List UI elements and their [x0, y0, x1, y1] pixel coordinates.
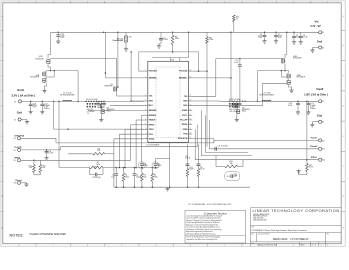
svg-text:E12: E12 [322, 149, 325, 151]
customer notice box [185, 210, 246, 243]
svg-text:3: 3 [190, 1, 191, 3]
svg-text:Si7540DP: Si7540DP [293, 58, 302, 60]
svg-text:4: 4 [156, 1, 157, 3]
ground rail bottom [114, 186, 250, 188]
svg-text:100k: 100k [175, 38, 179, 40]
svg-text:2.7V - 9V: 2.7V - 9V [310, 25, 321, 28]
wire ith1 staircase [119, 133, 144, 135]
svg-text:PLLIN: PLLIN [311, 138, 317, 140]
node SW2 [284, 70, 286, 72]
wire pgood2 net [210, 148, 319, 150]
svg-text:SENSE1-: SENSE1- [149, 110, 157, 112]
sense RC network ch1 [85, 101, 87, 103]
svg-text:5: 5 [121, 245, 122, 247]
inductor L1 [63, 100, 72, 101]
sense cluster pads ch2 [229, 103, 230, 105]
svg-text:Gnd: Gnd [17, 111, 23, 115]
ground left terminal [21, 119, 27, 121]
resistor R8 pullup [206, 37, 209, 44]
svg-text:3: 3 [190, 245, 191, 247]
svg-text:10k: 10k [42, 167, 45, 169]
svg-text:220pF: 220pF [136, 176, 141, 178]
capacitor C11 circled [138, 162, 145, 169]
svg-text:SYNC/FCB: SYNC/FCB [178, 138, 188, 140]
capacitor C19 output [30, 101, 32, 103]
svg-text:BG2: BG2 [184, 105, 188, 107]
capacitor C4 [300, 32, 302, 36]
sense cluster pads ch1 [87, 103, 88, 105]
wire pgood join over IC [139, 51, 199, 53]
resistor R10 [216, 166, 225, 168]
wire gnd-term [313, 47, 319, 49]
resistor R6 track net [68, 153, 93, 155]
ground Q6 [100, 114, 102, 118]
svg-text:330pF: 330pF [143, 165, 147, 167]
transistor Q6 sense [101, 109, 104, 114]
svg-text:47pF: 47pF [234, 175, 238, 177]
svg-text:2.5V ( 5A at 5Vin ): 2.5V ( 5A at 5Vin ) [11, 93, 35, 97]
svg-text:35.7k: 35.7k [200, 169, 204, 171]
svg-text:JP1: JP1 [129, 37, 132, 39]
capacitor C12 option box [225, 172, 240, 181]
svg-text:0.001uF: 0.001uF [221, 145, 229, 147]
svg-text:255k: 255k [154, 176, 158, 178]
svg-text:330pF: 330pF [157, 165, 161, 167]
transistor Q1A bottom fet [47, 70, 51, 73]
capacitor C15 output [42, 101, 44, 103]
svg-text:Vin: Vin [315, 19, 319, 23]
svg-text:U1 LTC3736EUF: U1 LTC3736EUF [147, 145, 160, 147]
U1 right pin stubs and labels [188, 70, 192, 72]
U1 top pin stubs [170, 58, 179, 62]
svg-text:E9: E9 [14, 160, 16, 162]
svg-text:1: 1 [259, 1, 260, 3]
wire Vout2 line [220, 100, 319, 102]
svg-text:IPRG1: IPRG1 [149, 124, 155, 126]
wire iprg2 net [195, 159, 318, 161]
capacitor C8 plllpf [46, 149, 48, 151]
svg-text:C18 1000pF: C18 1000pF [229, 111, 238, 113]
svg-text:1uF: 1uF [111, 176, 114, 178]
svg-text:E5: E5 [322, 32, 324, 34]
transistor Q4C parallel fet [287, 80, 290, 85]
resistor R9 pgood pullup [172, 32, 174, 35]
svg-text:SENSE2+: SENSE2+ [179, 78, 188, 80]
node SW1 [50, 70, 52, 72]
svg-text:C9: C9 [218, 145, 220, 147]
svg-text:C11: C11 [143, 163, 146, 165]
svg-text:10k: 10k [29, 167, 32, 169]
svg-text:10: 10 [236, 18, 238, 20]
svg-text:FMMT619: FMMT619 [105, 86, 113, 88]
svg-text:8: 8 [18, 1, 19, 3]
svg-text:RUN/SS: RUN/SS [149, 115, 157, 117]
svg-text:SW2: SW2 [183, 101, 187, 103]
svg-text:100k: 100k [209, 39, 213, 41]
svg-text:E4: E4 [14, 150, 16, 152]
wire R8 down to pll net [206, 43, 208, 71]
U1 bottom pin stub to ground rail [169, 142, 171, 187]
svg-text:1.8V ( 5A at 5Vin ): 1.8V ( 5A at 5Vin ) [304, 92, 328, 96]
transistor Q4B top fet [282, 58, 285, 63]
wire ith2/pgnd fan [200, 110, 202, 155]
svg-text:2: 2 [293, 1, 294, 3]
svg-text:SENSE1+: SENSE1+ [149, 78, 158, 80]
capacitor C9 pll filter [215, 147, 216, 151]
capacitor C3 [293, 32, 295, 36]
svg-text:Gnd: Gnd [317, 40, 323, 44]
wire iprg1 net [21, 159, 131, 161]
wire sw1 aux vertical [130, 52, 132, 101]
wire BG2 gate route [192, 105, 262, 107]
ground top-right [312, 48, 314, 49]
svg-text:IPRG2: IPRG2 [182, 124, 188, 126]
svg-text:VFB1: VFB1 [149, 129, 154, 131]
svg-text:0.1uF: 0.1uF [234, 62, 238, 64]
svg-text:2: 2 [293, 245, 294, 247]
svg-text:2: 2 [224, 1, 225, 3]
transistor Q1C parallel fet [43, 78, 46, 83]
ground right terminal [312, 121, 318, 123]
svg-text:PLLLPF: PLLLPF [180, 120, 188, 122]
svg-text:1: 1 [327, 1, 328, 3]
wire Q1B source to SW1 node [49, 67, 51, 71]
svg-text:Size: Size [251, 233, 254, 235]
svg-text:255k: 255k [125, 176, 129, 178]
wire SW1 pin [131, 100, 144, 102]
svg-text:C24 4.7pF: C24 4.7pF [92, 177, 101, 179]
wire sync net under IC [21, 137, 56, 139]
wire Q1A gate feed [53, 71, 55, 77]
svg-text:PGOOD2: PGOOD2 [179, 71, 187, 73]
compensation cluster ch1 [115, 167, 117, 169]
svg-text:BG1: BG1 [149, 105, 153, 107]
compensation cluster ch2 [187, 144, 189, 162]
svg-text:LTC CONFIDENTIAL - FOR CUSTOME: LTC CONFIDENTIAL - FOR CUSTOMER USE ONLY [188, 203, 232, 206]
svg-text:107k: 107k [96, 164, 100, 166]
svg-text:R5 1.8k C5 220pF: R5 1.8k C5 220pF [86, 99, 98, 101]
svg-text:5: 5 [121, 1, 122, 3]
inductor L2 [262, 100, 271, 101]
wire BG1 to cluster [110, 105, 144, 107]
svg-text:MLP2520S1R8M: MLP2520S1R8M [260, 95, 275, 97]
svg-text:Gnd: Gnd [317, 114, 323, 118]
svg-text:R13 0.015: R13 0.015 [229, 109, 236, 111]
ground JP1 [125, 42, 127, 48]
wire SW2 down to L2 [257, 71, 259, 102]
capacitor C2 [275, 32, 277, 35]
ground Q8 [236, 114, 238, 118]
svg-text:12: 12 [145, 137, 147, 139]
op-amp U1 LTC3736EUF body [148, 61, 189, 142]
svg-text:Rev: Rev [327, 233, 330, 235]
wire vout1 fb tap [58, 101, 60, 103]
wire SENSE2+ from rail [230, 32, 232, 101]
capacitor C6 [160, 32, 162, 38]
capacitor C10 circled [152, 162, 159, 169]
transistor Q1B top fet [47, 59, 50, 64]
svg-text:6: 6 [87, 245, 88, 247]
svg-text:10: 10 [145, 128, 147, 130]
capacitor C1 [264, 32, 266, 35]
svg-text:PVCC: PVCC [182, 115, 188, 117]
ground Q1A source [45, 83, 47, 89]
svg-text:VFB2: VFB2 [183, 129, 188, 131]
svg-text:F: F [1, 75, 2, 77]
ground R11 [299, 170, 307, 175]
wire run/ss staircase [142, 114, 145, 116]
svg-text:E1: E1 [14, 101, 16, 103]
resistor R11 fb [306, 160, 308, 164]
ground PGood terminal [21, 182, 27, 184]
capacitor C17 boost ch2 [239, 58, 241, 60]
svg-text:Panas: Panas [44, 108, 49, 110]
svg-text:PGND: PGND [182, 110, 188, 112]
wire vin drop to Q4B [286, 32, 288, 54]
svg-text:Si7540DP: Si7540DP [297, 77, 306, 79]
svg-text:10k: 10k [144, 176, 147, 178]
svg-text:33pF: 33pF [189, 169, 193, 171]
svg-text:C10: C10 [157, 163, 160, 165]
svg-text:C2 1000pF: C2 1000pF [87, 111, 95, 113]
svg-text:LTC3736EUF: LTC3736EUF [290, 237, 308, 241]
wire SW2 pin [192, 100, 220, 102]
svg-text:TG2: TG2 [184, 96, 188, 98]
svg-text:8: 8 [18, 245, 19, 247]
svg-text:FB=1: FB=1 [107, 111, 111, 113]
resistor R14 above rail [233, 15, 236, 22]
svg-text:4: 4 [156, 245, 157, 247]
svg-text:R5 1.8k C5 220pF: R5 1.8k C5 220pF [229, 99, 241, 101]
transistor Q3 aux [117, 32, 119, 87]
svg-text:Si7540DP: Si7540DP [35, 58, 44, 60]
sense RC network ch2 [229, 101, 231, 103]
wire vin drop to Q1B [50, 32, 52, 54]
wire sgnd staircase [114, 138, 144, 140]
svg-text:MLP2520S1R8M: MLP2520S1R8M [60, 95, 75, 97]
wire TG2 gate route [192, 95, 216, 97]
svg-text:10k: 10k [229, 163, 232, 165]
svg-text:DEMO-963A: DEMO-963A [273, 237, 288, 241]
svg-text:E13: E13 [322, 160, 325, 162]
svg-text:R4 0.015: R4 0.015 [87, 109, 93, 111]
wire pllin net [214, 139, 319, 141]
wire Q4B source to SW2 [284, 67, 286, 71]
capacitor C21 output [306, 101, 308, 103]
wire track staircase [136, 119, 144, 121]
svg-text:6: 6 [87, 1, 88, 3]
svg-text:0.01uF: 0.01uF [185, 158, 190, 160]
resistor R7 fb [95, 167, 97, 169]
svg-text:7: 7 [53, 1, 54, 3]
capacitor C20 output [297, 101, 299, 103]
resistor R12 pair [33, 160, 35, 164]
svg-text:TG1: TG1 [149, 96, 153, 98]
wire Q4A gate feed [280, 71, 282, 77]
wire Vout1 line [21, 100, 145, 102]
transistor Q4A bottom fet [285, 71, 289, 73]
svg-text:Vout2: Vout2 [316, 87, 324, 91]
svg-text:7: 7 [53, 245, 54, 247]
svg-text:PGOOD1: PGOOD1 [149, 71, 157, 73]
svg-text:SW1: SW1 [149, 101, 153, 103]
svg-text:Vout1: Vout1 [17, 88, 25, 92]
svg-text:2: 2 [224, 245, 225, 247]
svg-text:LINEAR TECHNOLOGY CORPORATION: LINEAR TECHNOLOGY CORPORATION [253, 208, 340, 213]
svg-text:Panas: Panas [310, 108, 315, 110]
svg-text:(408) 432-1900: (408) 432-1900 [253, 218, 263, 220]
U1 left pin stubs and labels [144, 70, 148, 72]
node VIN rail [51, 31, 319, 33]
svg-text:ITH1: ITH1 [149, 134, 153, 136]
svg-text:35.7k: 35.7k [309, 167, 313, 169]
wire sense tap ch1 [53, 101, 55, 103]
svg-text:1: 1 [327, 245, 328, 247]
svg-text:PGood2: PGood2 [310, 146, 317, 148]
svg-text:10k: 10k [97, 150, 100, 152]
U1 exposed pad (dotted) [156, 67, 180, 138]
svg-text:E7: E7 [322, 101, 324, 103]
wire pgood1 up [138, 52, 140, 71]
svg-text:Customer Notice: Customer Notice [204, 211, 227, 215]
wire SW1 down to L1 [77, 71, 79, 102]
svg-text:NOTES:: NOTES: [10, 233, 24, 237]
ground bottom rail symbol [165, 187, 169, 191]
svg-text:E11: E11 [322, 140, 325, 142]
wire TG1 gate route [50, 58, 117, 60]
jumper JP1 forced continuous [125, 32, 127, 36]
svg-text:LTC3736EUF 2-Phase Dual Synchr: LTC3736EUF 2-Phase Dual Synchronous Step… [251, 229, 307, 232]
wire sense1- route [88, 109, 144, 111]
ground Q4A source [289, 85, 292, 89]
svg-text:UNLESS OTHERWISE SPECIFIED: UNLESS OTHERWISE SPECIFIED [30, 234, 67, 236]
title block frame [251, 208, 342, 247]
svg-text:TRACK: TRACK [149, 119, 156, 122]
svg-text:FB=1: FB=1 [242, 111, 246, 113]
wire vfb2 tap [306, 101, 308, 159]
wire plllpf net [21, 149, 61, 151]
capacitor C16 bypass [57, 32, 59, 35]
svg-text:E10: E10 [14, 183, 17, 185]
svg-text:ITH2: ITH2 [183, 134, 187, 136]
wire SENSE1+ from rail [104, 32, 106, 78]
svg-text:E8: E8 [322, 122, 324, 124]
wire pgood2 down [198, 52, 200, 71]
svg-text:IPRG2: IPRG2 [311, 157, 317, 159]
svg-text:F: F [343, 75, 344, 77]
svg-text:SGND: SGND [149, 138, 155, 140]
svg-text:Si7540DP: Si7540DP [30, 77, 39, 79]
svg-text:E3: E3 [14, 138, 16, 140]
transistor Q8 sense [237, 109, 240, 114]
svg-text:E6: E6 [322, 47, 324, 49]
capacitor C24 fb [96, 173, 97, 177]
svg-text:E2: E2 [14, 119, 16, 121]
wire vin feed to U1 top [188, 32, 190, 57]
